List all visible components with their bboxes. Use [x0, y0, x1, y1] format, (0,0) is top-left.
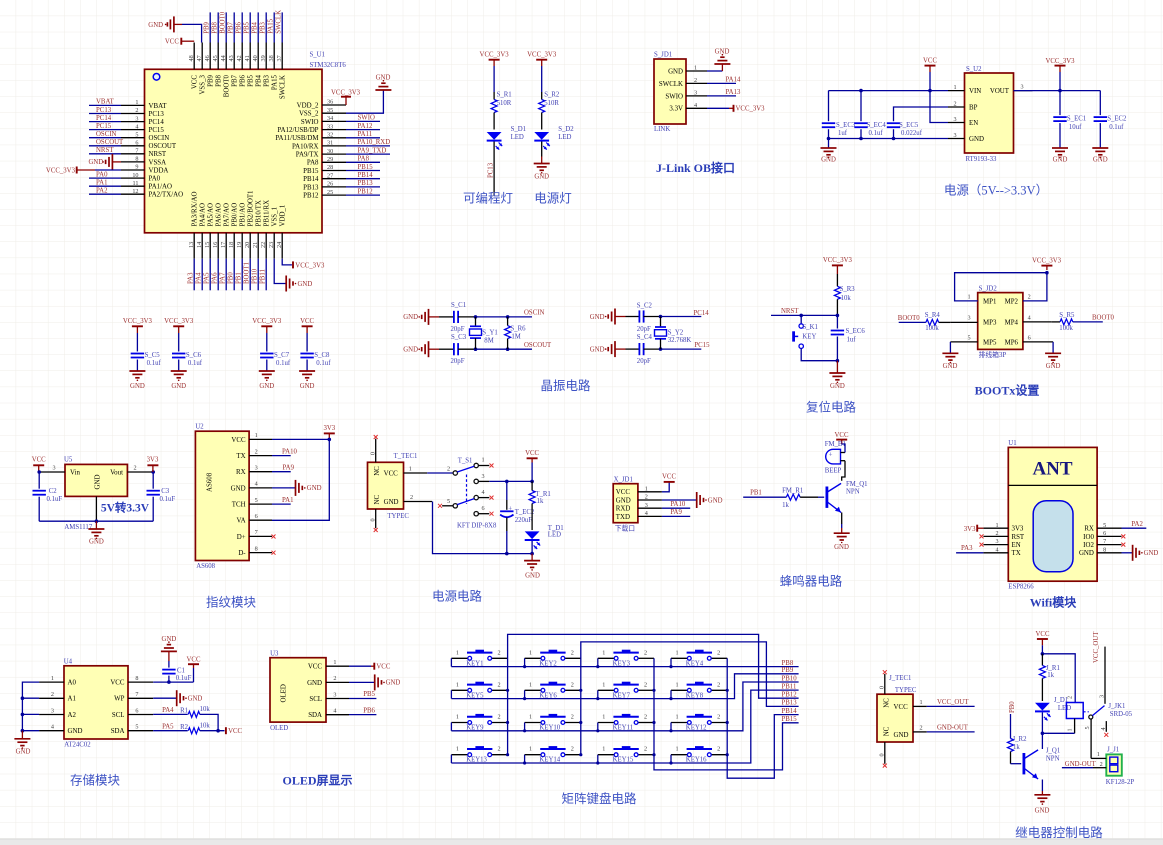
wire GND rail of S_U2: [829, 138, 949, 140]
pin 3 (RXD) of X_JD1: [616, 502, 662, 513]
svg-text:GND: GND: [89, 539, 104, 546]
junction: [216, 729, 220, 733]
svg-text:VCC_OUT: VCC_OUT: [937, 699, 969, 706]
svg-text:MP2: MP2: [1005, 298, 1019, 305]
pin 2 (BP) of S_U2: [948, 101, 978, 112]
svg-text:PB11/RX: PB11/RX: [264, 200, 271, 227]
svg-text:1: 1: [255, 432, 258, 439]
wire column2 to PB13: [581, 642, 799, 755]
key KEY11: [598, 714, 654, 732]
power VCC_3V3 above S_R3: [823, 257, 853, 274]
power 3V3 right of U5: [147, 457, 159, 473]
ground below S_C6: [171, 371, 187, 390]
svg-text:PA9: PA9: [670, 509, 682, 516]
svg-text:PB8: PB8: [782, 660, 794, 667]
svg-text:26: 26: [327, 181, 333, 188]
wire key left lead down: [670, 723, 672, 731]
svg-text:19: 19: [236, 242, 243, 248]
ground below J_Q1: [1034, 791, 1050, 815]
svg-text:3: 3: [1099, 695, 1106, 698]
svg-text:0.1uF: 0.1uF: [160, 496, 176, 503]
svg-text:PA12: PA12: [358, 123, 373, 130]
svg-text:ESP8266: ESP8266: [1008, 584, 1034, 591]
junction: [652, 753, 655, 756]
wire key left lead down: [670, 755, 672, 763]
node PA10: [272, 448, 297, 455]
power VCC_3V3 at MCU pin 36 VDD_2: [331, 90, 361, 106]
svg-text:3V3: 3V3: [147, 457, 159, 464]
resistor S_R1 510R: [491, 92, 512, 130]
svg-text:S_C1: S_C1: [451, 302, 466, 309]
svg-text:MP1: MP1: [983, 298, 997, 305]
wire key left lead down: [450, 658, 452, 666]
svg-text:PA4: PA4: [162, 707, 174, 714]
svg-text:FM_Q1: FM_Q1: [846, 481, 868, 488]
svg-text:A1: A1: [68, 696, 77, 703]
svg-text:5: 5: [447, 498, 450, 505]
svg-text:2: 2: [333, 675, 336, 682]
svg-text:电源（5V-->3.3V）: 电源（5V-->3.3V）: [944, 184, 1048, 198]
pin-1 indicator ring: [153, 74, 160, 81]
pin 3 of T_S1: [478, 473, 489, 482]
svg-text:PC15: PC15: [694, 342, 710, 349]
svg-text:VCC: VCC: [192, 75, 199, 90]
pins 5/6 (MP5/MP6) of S_JD2: [968, 335, 1031, 347]
svg-text:PB15: PB15: [782, 716, 798, 723]
svg-text:VCC_3V3: VCC_3V3: [527, 52, 557, 59]
svg-text:RST: RST: [1012, 534, 1025, 541]
svg-text:T_R1: T_R1: [535, 491, 550, 498]
svg-text:GND: GND: [231, 485, 246, 492]
svg-text:3: 3: [333, 691, 336, 698]
ground below S_EC1: [1052, 148, 1068, 164]
pin 10 (PA0): [89, 171, 161, 182]
junction: [21, 696, 25, 700]
svg-text:PA5: PA5: [162, 724, 174, 731]
junction: [1058, 89, 1062, 93]
svg-text:NC: NC: [374, 495, 381, 505]
pin 1 (GND) of U5: [95, 496, 97, 521]
svg-text:继电器控制电路: 继电器控制电路: [1015, 825, 1103, 840]
junction: [836, 359, 840, 363]
svg-text:RX: RX: [236, 469, 246, 476]
svg-text:1: 1: [675, 649, 678, 656]
svg-text:VIN: VIN: [969, 88, 981, 95]
svg-text:VCC: VCC: [110, 680, 125, 687]
antenna divider line: [1008, 484, 1097, 486]
resistor S_R4 100k: [899, 312, 978, 332]
connector T_TEC1 TYPEC box: [368, 462, 404, 509]
pin 44 (BOOT0): [220, 11, 231, 97]
junction: [505, 552, 509, 556]
svg-text:排线箱3P: 排线箱3P: [979, 350, 1007, 359]
pin 6 (OSCOUT): [89, 139, 177, 150]
pin 3 (SWIO) of S_JD1: [665, 89, 707, 100]
svg-text:4: 4: [694, 102, 697, 109]
junction: [523, 697, 526, 700]
svg-text:GND: GND: [715, 49, 730, 56]
capacitor S_C8 0.1uf: [300, 333, 331, 371]
svg-text:S_JD2: S_JD2: [979, 285, 998, 292]
svg-text:AS608: AS608: [196, 563, 215, 570]
svg-text:PB9: PB9: [782, 667, 794, 674]
pin 9 (VDDA): [121, 164, 168, 175]
pin 4 of relay no-connect: [1100, 721, 1108, 737]
svg-text:LED: LED: [1058, 705, 1071, 712]
pin 5 of T_S1: [438, 498, 453, 508]
svg-text:8: 8: [135, 156, 138, 163]
svg-text:J_TEC1: J_TEC1: [889, 675, 911, 682]
svg-text:2: 2: [498, 681, 501, 688]
svg-text:S_C6: S_C6: [186, 352, 202, 359]
pin 1 (VCC) of X_JD1: [616, 485, 662, 496]
svg-text:PC15: PC15: [96, 123, 112, 130]
connector S_JD2 box: [978, 293, 1023, 350]
svg-text:VCC_3V3: VCC_3V3: [736, 106, 766, 113]
svg-text:GND: GND: [68, 728, 83, 735]
svg-text:GND: GND: [307, 485, 322, 492]
svg-text:2: 2: [644, 714, 647, 721]
wire left address pins to ground: [22, 682, 39, 731]
svg-text:VCC_3V3: VCC_3V3: [1045, 58, 1075, 65]
pin 3 (PC14): [89, 115, 164, 126]
svg-text:2: 2: [645, 494, 648, 501]
svg-text:+: +: [829, 452, 833, 459]
ground below A-pins: [14, 731, 30, 756]
pin names NC/VCC/GND of T_TEC1: [374, 466, 399, 506]
key KEY16: [671, 746, 727, 764]
power VCC_3V3 above S_C7: [252, 318, 282, 333]
svg-text:NRST: NRST: [781, 308, 799, 315]
svg-text:BOOT0: BOOT0: [898, 315, 921, 322]
svg-text:5: 5: [968, 335, 971, 342]
svg-text:VCC_3V3: VCC_3V3: [1032, 258, 1062, 265]
key KEY3: [598, 649, 654, 667]
resistor FM_R1 1k: [782, 487, 824, 509]
svg-text:41: 41: [244, 55, 251, 61]
svg-text:J_Q1: J_Q1: [1046, 748, 1060, 755]
svg-text:1: 1: [996, 522, 999, 529]
pin 21 (PB10/TX): [252, 200, 263, 290]
pin 47 (VSS_3): [196, 43, 207, 95]
pin 7 (WP) of U4: [114, 691, 153, 703]
svg-text:PB14: PB14: [782, 708, 798, 715]
svg-text:PB3: PB3: [260, 21, 267, 33]
svg-text:24: 24: [276, 242, 283, 248]
svg-text:OSCIN: OSCIN: [96, 131, 116, 138]
pin 6 (IO0) of ESP8266: [1083, 530, 1121, 541]
svg-text:GND: GND: [943, 363, 958, 370]
svg-text:7: 7: [255, 529, 258, 536]
pin 1 (3V3) of ESP8266: [983, 522, 1024, 533]
capacitor S_EC3 1uf: [822, 91, 856, 148]
svg-text:47: 47: [196, 55, 203, 61]
svg-text:1M: 1M: [511, 333, 520, 340]
svg-text:3V3: 3V3: [323, 425, 335, 432]
pin 1 (A0) of U4: [39, 675, 76, 687]
svg-text:GND: GND: [834, 544, 849, 551]
svg-text:42: 42: [236, 55, 243, 61]
junction: [928, 89, 932, 93]
junction: [659, 315, 663, 319]
pin 15 (PA5/AO): [204, 203, 215, 290]
wire OSCOUT row: [476, 348, 533, 350]
svg-text:S_EC4: S_EC4: [867, 122, 887, 129]
resistor S_R3 10k: [834, 274, 855, 315]
svg-text:NC: NC: [883, 698, 890, 708]
IC U4 AT24C02 box: [64, 666, 128, 739]
svg-text:3: 3: [255, 465, 258, 472]
svg-text:OSCIN: OSCIN: [524, 310, 544, 317]
svg-text:PB9: PB9: [204, 21, 211, 33]
no-connect D+: [272, 535, 276, 539]
wire OSCIN row: [476, 316, 533, 318]
svg-text:13: 13: [188, 242, 195, 248]
svg-text:39: 39: [260, 55, 267, 61]
svg-text:1: 1: [602, 714, 605, 721]
svg-text:OSCOUT: OSCOUT: [149, 143, 177, 150]
svg-text:BOOT0: BOOT0: [224, 74, 231, 97]
svg-text:20pF: 20pF: [451, 326, 465, 333]
junction: [827, 137, 831, 141]
svg-text:VCC: VCC: [1036, 631, 1050, 638]
svg-text:LED: LED: [511, 134, 524, 141]
svg-text:PA11/USB/DM: PA11/USB/DM: [275, 135, 318, 142]
wire column4 to PB14: [727, 658, 798, 778]
svg-text:RX: RX: [1084, 526, 1094, 533]
wire key left lead down: [597, 755, 599, 763]
pin 0 top of J_TEC1: [879, 670, 887, 694]
key KEY13: [451, 746, 507, 764]
junction: [669, 761, 672, 764]
svg-text:NC: NC: [883, 726, 890, 736]
svg-text:2: 2: [571, 649, 574, 656]
svg-text:1: 1: [645, 485, 648, 492]
junction: [652, 689, 655, 692]
svg-text:PC15: PC15: [149, 127, 165, 134]
junction: [506, 315, 510, 319]
key KEY8: [671, 681, 727, 699]
svg-text:2: 2: [954, 101, 957, 108]
svg-text:OSCOUT: OSCOUT: [96, 139, 124, 146]
pin 0 top of T_TEC1: [370, 439, 377, 463]
svg-text:PA2: PA2: [1131, 521, 1143, 528]
junction: [596, 665, 599, 668]
ground at upper left of crystal2: [590, 309, 626, 325]
svg-text:GND-OUT: GND-OUT: [937, 725, 969, 732]
svg-text:0.1uf: 0.1uf: [188, 360, 203, 367]
svg-text:VCC_3V3: VCC_3V3: [164, 318, 194, 325]
svg-text:VCC_OUT: VCC_OUT: [1093, 631, 1100, 663]
svg-text:GND: GND: [259, 383, 274, 390]
pin 3 (A2) of U4: [39, 707, 76, 719]
pin 5 (SDA) of U4: [111, 724, 153, 736]
ground at S_JD1 pin 1: [707, 49, 730, 72]
pin 5 wire to ground: [950, 342, 977, 353]
module outline rounded rect: [1033, 501, 1073, 572]
svg-text:0.1uf: 0.1uf: [1109, 124, 1124, 131]
svg-text:S_EC1: S_EC1: [1067, 116, 1086, 123]
svg-text:9: 9: [135, 164, 138, 171]
svg-text:KF128-2P: KF128-2P: [1106, 779, 1135, 786]
power VCC_3V3 above S_C6: [164, 318, 194, 333]
svg-text:SWCLK: SWCLK: [659, 81, 683, 88]
svg-text:PA5: PA5: [204, 272, 211, 284]
pin 18 (PB0/AO): [228, 203, 239, 291]
svg-text:2: 2: [134, 465, 137, 472]
wire BP to S_EC5: [894, 107, 949, 121]
junction: [836, 314, 840, 318]
svg-text:电源电路: 电源电路: [432, 589, 483, 604]
svg-text:1: 1: [456, 746, 459, 753]
svg-text:37: 37: [276, 55, 283, 61]
pin 17 (PA7/AO): [220, 203, 231, 290]
junction: [167, 680, 171, 684]
ground at MCU pin 47 VSS_3: [148, 16, 201, 42]
power VCC above T_R1: [525, 450, 539, 482]
svg-text:45: 45: [212, 55, 219, 61]
node PB0 rotated: [1009, 701, 1016, 739]
pin 1 of J_J1: [1091, 751, 1106, 758]
junction: [21, 713, 25, 717]
svg-text:PB5: PB5: [363, 691, 375, 698]
svg-text:J_J1: J_J1: [1107, 747, 1119, 754]
pin 7 (D+) of U2 AS608: [237, 529, 272, 541]
svg-text:蜂鸣器电路: 蜂鸣器电路: [780, 574, 843, 589]
svg-text:7: 7: [135, 148, 138, 155]
power VCC_3V3 above S_EC1: [1045, 58, 1075, 91]
power VCC right of R2: [226, 727, 243, 735]
svg-text:PA3: PA3: [188, 272, 195, 284]
pin 14 (PA4/AO): [196, 203, 207, 290]
LED S_D1: [487, 126, 526, 150]
svg-text:4: 4: [645, 510, 648, 517]
junction: [530, 480, 534, 484]
svg-text:PA8: PA8: [358, 156, 370, 163]
pin 37 (SWCLK): [276, 10, 287, 99]
node PA10 at X_JD1 pin 3: [662, 501, 690, 508]
svg-text:PB15: PB15: [303, 168, 319, 175]
svg-text:GND: GND: [148, 22, 163, 29]
capacitor C1 0.1uF: [162, 661, 191, 682]
pin 4 (TX) of ESP8266: [983, 546, 1020, 557]
svg-text:S_R3: S_R3: [840, 286, 856, 293]
svg-text:SDA: SDA: [308, 712, 322, 719]
pin 38 (PA15): [268, 12, 279, 90]
wire switch to VCC rail: [489, 480, 532, 482]
ground below S_JD2 pin 6: [1045, 353, 1061, 370]
svg-text:20: 20: [244, 242, 251, 248]
svg-text:4: 4: [1028, 315, 1031, 322]
switch T_S1 KFT DIP-8X8: [453, 457, 497, 529]
wire key left lead down: [597, 658, 599, 666]
svg-text:10uf: 10uf: [1069, 124, 1082, 131]
svg-text:SRD-05: SRD-05: [1110, 711, 1133, 718]
svg-text:2: 2: [447, 466, 450, 473]
svg-text:OLED: OLED: [281, 684, 288, 702]
node PB6 at OLED pin 4: [349, 707, 376, 714]
svg-text:PB3: PB3: [264, 74, 271, 86]
svg-text:2: 2: [644, 681, 647, 688]
svg-text:KFT DIP-8X8: KFT DIP-8X8: [457, 523, 497, 530]
svg-text:PB1: PB1: [750, 490, 762, 497]
svg-text:1: 1: [529, 681, 532, 688]
svg-text:2: 2: [694, 77, 697, 84]
svg-text:PB10: PB10: [252, 268, 259, 284]
wire key left lead down: [524, 723, 526, 731]
no-connect bottom: [374, 528, 378, 532]
junction: [652, 721, 655, 724]
svg-text:3V3: 3V3: [1012, 526, 1024, 533]
svg-text:6: 6: [255, 513, 258, 520]
svg-text:FM_B1: FM_B1: [825, 441, 846, 448]
svg-text:A2: A2: [68, 712, 77, 719]
svg-text:7: 7: [1103, 538, 1106, 545]
svg-text:3: 3: [694, 89, 697, 96]
svg-text:SWIO: SWIO: [358, 115, 375, 122]
svg-text:PA1: PA1: [96, 180, 107, 187]
pin 6 wire to ground: [1023, 342, 1053, 353]
svg-text:Vout: Vout: [110, 470, 123, 477]
pin 25 (PB12): [303, 188, 380, 199]
pin 20 (PB2/BOOT1): [244, 190, 255, 290]
svg-text:GND: GND: [307, 680, 322, 687]
node PA4 + resistor R1 10k: [153, 706, 218, 731]
pin 2 (SWCLK) of S_JD1: [659, 77, 707, 88]
transistor FM_Q1 NPN: [826, 481, 868, 524]
svg-text:5: 5: [1084, 726, 1091, 729]
ground below S_EC2: [1092, 148, 1108, 164]
crystal S_Y2 32.768K: [655, 317, 692, 350]
pin 23 (VSS_1): [268, 206, 279, 258]
pin 7 (IO2) of ESP8266: [1083, 538, 1121, 549]
svg-text:1: 1: [482, 457, 485, 464]
svg-text:AMS1117: AMS1117: [64, 524, 92, 531]
relay switch lever: [1089, 703, 1133, 719]
svg-text:J_JK1: J_JK1: [1108, 703, 1125, 710]
svg-text:VA: VA: [237, 518, 246, 525]
svg-text:2: 2: [255, 448, 258, 455]
ground at WP pin 7: [153, 690, 202, 706]
svg-text:GND: GND: [894, 732, 909, 739]
svg-text:VCC: VCC: [662, 473, 676, 480]
svg-text:1: 1: [529, 649, 532, 656]
svg-text:GND: GND: [16, 749, 31, 756]
svg-text:1: 1: [602, 649, 605, 656]
svg-text:3: 3: [51, 707, 54, 714]
svg-text:VCC: VCC: [228, 728, 242, 735]
svg-text:PA2: PA2: [96, 188, 108, 195]
svg-text:J_R1: J_R1: [1046, 665, 1060, 672]
svg-text:MP3: MP3: [983, 319, 997, 326]
svg-text:S_C2: S_C2: [637, 302, 653, 309]
svg-text:VCC_3V3: VCC_3V3: [331, 90, 361, 97]
svg-text:LINK: LINK: [654, 126, 670, 133]
pin 4 (3.3V) of S_JD1: [669, 102, 707, 113]
resistor S_R2 510R: [539, 92, 560, 130]
svg-text:VSS_1: VSS_1: [272, 206, 279, 226]
svg-text:PA11: PA11: [358, 131, 373, 138]
svg-text:1k: 1k: [782, 502, 789, 509]
relay switch dashed link: [1083, 711, 1089, 713]
pin 42 (PB6): [236, 12, 247, 86]
svg-text:X_JD1: X_JD1: [614, 476, 633, 483]
wire row2 to PB9: [451, 674, 798, 699]
svg-text:PB13: PB13: [358, 180, 374, 187]
pin 1 (VCC) of T_TEC1: [404, 466, 428, 473]
svg-text:GND: GND: [386, 680, 401, 687]
svg-text:T_S1: T_S1: [458, 457, 473, 464]
